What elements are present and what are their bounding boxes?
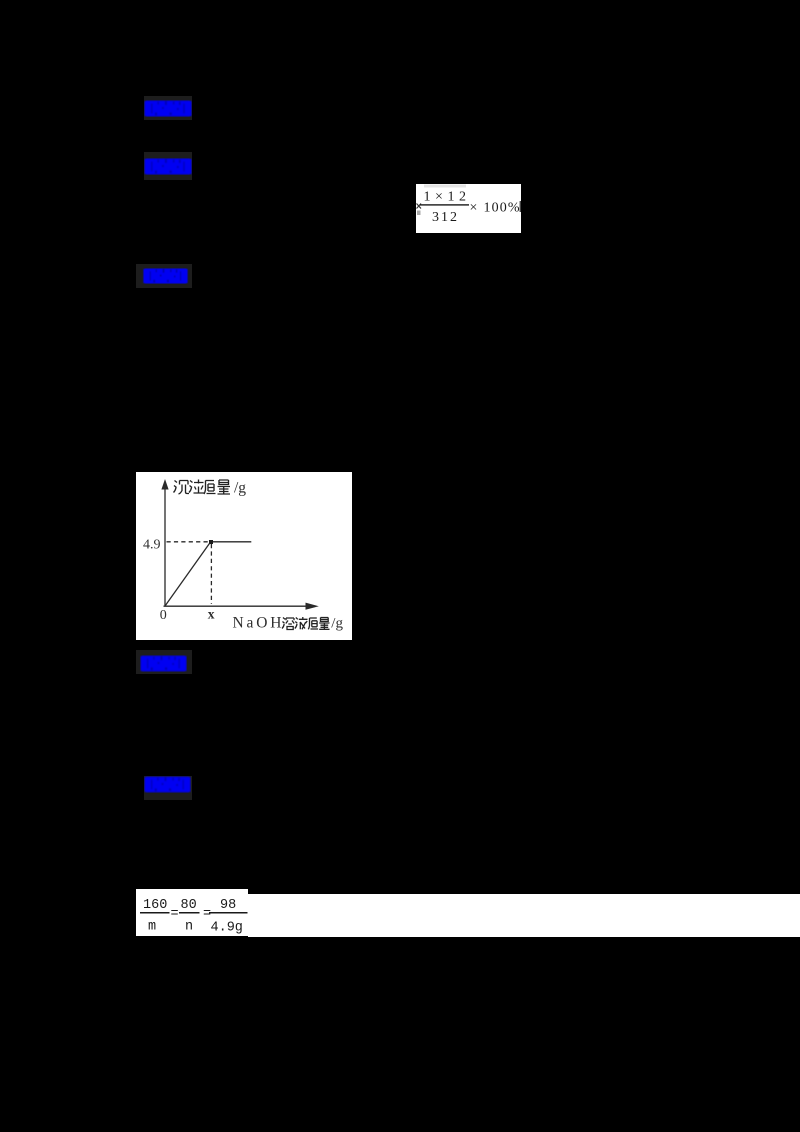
char liang (218, 480, 231, 494)
fraction bar 2 (179, 912, 200, 914)
curve plateau segment (211, 541, 251, 543)
svg-text:4.9: 4.9 (143, 538, 161, 553)
y label chen dian zhi liang (174, 480, 231, 495)
svg-text:80: 80 (181, 898, 197, 913)
char rong (282, 618, 294, 630)
graph image white box (136, 472, 352, 640)
label halo 5 (144, 776, 192, 800)
white band to right edge (248, 894, 800, 937)
svg-text:NaOH: NaOH (233, 614, 282, 631)
curve rising segment (165, 542, 211, 606)
dashed horizontal to 4.9 (167, 541, 209, 543)
x-axis arrowhead (306, 603, 319, 610)
svg-text:100%: 100% (484, 201, 520, 216)
shared defs for blue label blob (0, 0, 1, 1)
char chen (174, 481, 190, 495)
y-axis (164, 487, 166, 607)
svg-text:x: x (208, 606, 215, 621)
x label rong ye zhi liang (282, 617, 330, 630)
blue label 3 comment (142, 268, 189, 284)
svg-text:×: × (470, 201, 478, 216)
blue label 1 analysis (144, 100, 192, 117)
label halo 1 (144, 96, 192, 120)
svg-text:/g: /g (234, 480, 246, 497)
formula image 2 white box (136, 889, 248, 936)
formula 2: 160/m = 80/n = 98/4.9g (136, 888, 248, 935)
blue label 5 answer (144, 776, 191, 793)
svg-text:312: 312 (432, 210, 457, 225)
svg-text:4.9g: 4.9g (211, 921, 243, 936)
blue label 4 analysis (140, 655, 187, 672)
label halo 2 (144, 152, 192, 180)
svg-text:n: n (185, 920, 193, 935)
dashed vertical to x (210, 544, 212, 604)
fraction bar 1 (140, 912, 170, 914)
fraction bar 3 (209, 912, 248, 914)
x-axis (164, 605, 307, 607)
fraction bar (420, 204, 469, 205)
char dian (189, 480, 204, 494)
svg-text:/g: /g (331, 615, 343, 631)
svg-text:=: = (171, 907, 179, 922)
svg-text:98: 98 (220, 898, 236, 913)
y-axis arrowhead (161, 479, 168, 490)
svg-text:0: 0 (160, 608, 167, 623)
char liang2 (319, 618, 329, 630)
label halo 4 (136, 650, 192, 674)
right edge cut mark (520, 201, 521, 212)
svg-text:m: m (148, 920, 156, 935)
svg-text:160: 160 (143, 898, 167, 913)
char ye (295, 617, 308, 629)
char zhi2 (308, 618, 318, 629)
faint top smudge (424, 185, 466, 188)
label halo 3 (136, 264, 192, 288)
point dot (209, 540, 213, 544)
char zhi (204, 481, 216, 495)
blue label 2 answer (144, 158, 192, 175)
svg-text:1×12: 1×12 (424, 190, 467, 205)
formula image 1: (1x12/312)x100% (416, 184, 521, 233)
left edge cut mark (417, 204, 422, 209)
